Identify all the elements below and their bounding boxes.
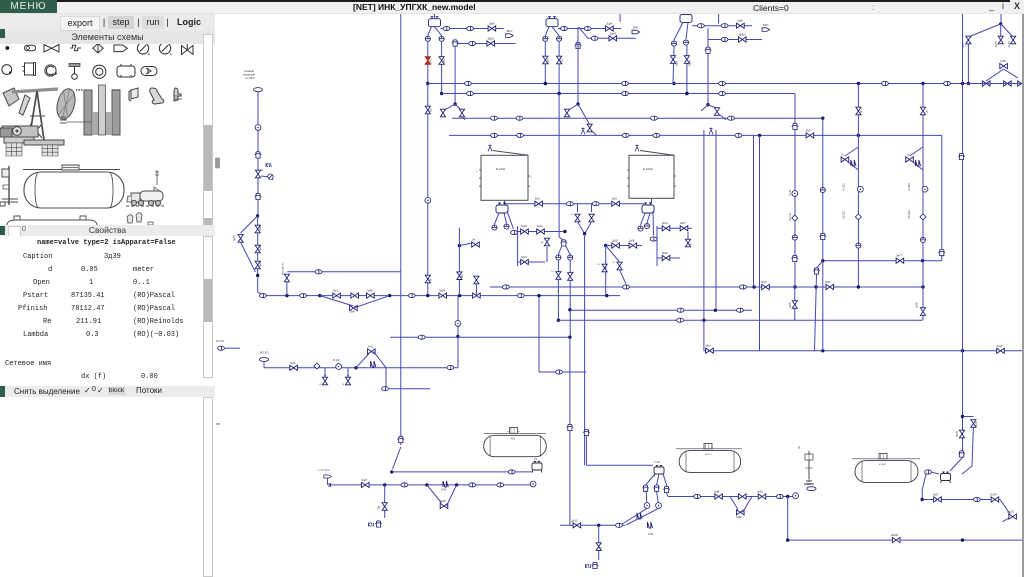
- wire: [1002, 518, 1009, 522]
- valve SuM: [350, 306, 358, 311]
- valve: [474, 276, 479, 284]
- wire C1 row1: [441, 28, 504, 30]
- wire: [538, 296, 540, 372]
- wire merge: [578, 222, 585, 234]
- svg-text:БРС: БРС: [560, 58, 564, 64]
- valve Zi104: [991, 497, 999, 502]
- valve: [685, 239, 690, 247]
- valve: [587, 124, 592, 132]
- valve: [255, 245, 260, 253]
- svg-text:Зв75: Зв75: [994, 41, 998, 48]
- check valve: [792, 215, 798, 221]
- fitting: [502, 285, 509, 289]
- wire: [566, 247, 570, 255]
- group right drum cluster: [921, 470, 1017, 522]
- wire stub: [286, 282, 288, 296]
- node: [786, 495, 789, 498]
- fitting: [944, 81, 951, 85]
- group line y540: [786, 534, 1024, 543]
- wire: [427, 42, 429, 84]
- wire drop: [428, 27, 432, 36]
- wire bypass: [845, 147, 859, 156]
- wire: [673, 47, 674, 84]
- node: [426, 294, 429, 297]
- wire branch: [455, 104, 462, 111]
- palette icons svg: [0, 44, 215, 225]
- wire: [569, 260, 571, 273]
- wire stub: [687, 232, 689, 239]
- pole tick: [805, 454, 813, 482]
- tank2 top line: [676, 448, 742, 450]
- strainer: [371, 361, 376, 367]
- fitting: [882, 81, 889, 85]
- wire drop: [384, 485, 386, 518]
- wire branch: [817, 261, 823, 268]
- drum: [496, 203, 508, 213]
- svg-text:Зд33: Зд33: [259, 245, 262, 251]
- group subtree x559: [551, 94, 575, 338]
- wire: [458, 228, 460, 246]
- valve: [792, 301, 797, 309]
- small 3d icons: [129, 88, 182, 104]
- indicator: [255, 125, 261, 131]
- wire: [557, 260, 559, 272]
- vessel drum C1: [429, 17, 441, 27]
- valve: [425, 106, 430, 114]
- valve Zd99: [758, 494, 766, 499]
- node: [821, 349, 824, 352]
- group drum under E-1043: [638, 203, 657, 241]
- wire branch: [963, 416, 974, 418]
- valve Zv77: [896, 258, 904, 263]
- strainer: [851, 160, 856, 166]
- wire: [558, 42, 560, 94]
- wire bypass: [910, 147, 924, 156]
- svg-text:Зв76: Зв76: [975, 421, 978, 427]
- wire trunk right: [962, 14, 964, 458]
- indicator: [644, 223, 649, 228]
- wire: [967, 44, 969, 84]
- wire C1 row2: [455, 43, 515, 45]
- wire bypass: [353, 296, 389, 309]
- group line y372: [537, 294, 586, 374]
- wire bus mid: [490, 286, 923, 288]
- svg-text:ЗвУЗ: ЗвУЗ: [761, 281, 767, 284]
- valve ZvM: [706, 348, 714, 353]
- wire header: [656, 226, 658, 266]
- svg-text:Зд09: Зд09: [521, 225, 527, 228]
- valve: [602, 264, 607, 272]
- wire: [558, 247, 561, 255]
- fitting: [728, 116, 735, 120]
- arrow BRS: [762, 28, 770, 32]
- start tick: [329, 483, 331, 487]
- pump Н-1022: [922, 186, 928, 192]
- svg-text:НС1022: НС1022: [908, 210, 911, 219]
- separator can: [255, 152, 262, 158]
- fitting: [776, 494, 783, 498]
- valve F: [425, 275, 430, 283]
- fitting: [491, 116, 498, 120]
- fitting: [591, 36, 598, 40]
- window title bar: [0, 0, 1024, 14]
- wire drop: [674, 22, 683, 40]
- node: [383, 483, 386, 486]
- fitting: [737, 308, 744, 312]
- node: [388, 294, 391, 297]
- valve: [473, 293, 481, 298]
- svg-text:Зс: Зс: [841, 154, 844, 157]
- node: [597, 524, 600, 527]
- svg-text:Ф2: Ф2: [461, 274, 464, 278]
- wire line D: [449, 134, 942, 136]
- node: [857, 285, 860, 288]
- valve ZdM: [290, 365, 298, 370]
- svg-text:Зд31: Зд31: [233, 235, 236, 241]
- wire: [707, 28, 709, 105]
- wire drop: [507, 211, 514, 229]
- node: [786, 538, 789, 541]
- wire C3 row1: [692, 25, 752, 27]
- node: [563, 230, 566, 233]
- valve: [906, 157, 914, 162]
- tank3 end seams: [862, 461, 911, 482]
- wire bypass down: [962, 427, 973, 474]
- group tank3: [852, 453, 920, 482]
- separator can: [819, 233, 826, 239]
- wire: [388, 388, 430, 390]
- vessel E-1043 body: [629, 155, 674, 198]
- pump Н-1021: [858, 186, 864, 192]
- strainer: [637, 513, 642, 519]
- indicator: [644, 503, 650, 509]
- drum separator: [654, 466, 664, 477]
- valve ZvU1: [826, 284, 834, 289]
- svg-text:а: а: [476, 171, 478, 173]
- indicator: [568, 255, 573, 260]
- drum U2: [532, 462, 542, 473]
- node: [544, 82, 547, 85]
- wire corner: [393, 447, 401, 469]
- fitting: [719, 91, 726, 95]
- wire stub: [619, 13, 621, 22]
- wire header: [517, 226, 519, 266]
- svg-text:Газовый: Газовый: [244, 69, 255, 73]
- svg-text:Е: Е: [342, 383, 345, 385]
- group pump line H-102: [259, 296, 460, 391]
- wire bypass: [910, 160, 924, 171]
- wire drop: [598, 525, 600, 560]
- drum: [941, 472, 951, 483]
- tank2 hatch: [704, 443, 712, 448]
- separator can: [583, 429, 590, 435]
- svg-text:ЗиМ: ЗиМ: [367, 289, 373, 293]
- bottom select bar: [0, 386, 215, 397]
- svg-text:Н-1021: Н-1021: [842, 182, 845, 191]
- svg-text:Е: Е: [572, 271, 575, 273]
- node: [583, 232, 586, 235]
- wire drop: [663, 474, 668, 488]
- node: [857, 134, 860, 137]
- wire pump chain: [922, 84, 924, 261]
- separator can: [575, 42, 582, 48]
- pump: [530, 481, 536, 487]
- valve Ve1: [535, 201, 543, 206]
- wire: [454, 47, 456, 105]
- svg-text:Зв07: Зв07: [933, 494, 939, 497]
- wire: [441, 42, 443, 94]
- group cluster C2: [543, 13, 640, 135]
- node: [921, 498, 924, 501]
- svg-text:У2: У2: [534, 458, 538, 461]
- svg-text:Е: Е: [319, 383, 322, 385]
- valve: [670, 56, 675, 64]
- wire: [605, 246, 607, 296]
- node: [557, 319, 560, 322]
- valve Zd06: [629, 243, 637, 248]
- valve: [544, 238, 549, 246]
- svg-text:Зв76: Зв76: [1007, 41, 1011, 48]
- valve: [575, 214, 580, 222]
- valve: [322, 377, 327, 385]
- wire: [657, 227, 692, 229]
- indicator: [856, 243, 861, 248]
- label oval: [253, 88, 262, 92]
- tank1 end seams: [490, 436, 540, 457]
- valve: [1011, 36, 1016, 44]
- node: [285, 294, 288, 297]
- node: [714, 309, 717, 312]
- wire: [560, 524, 625, 526]
- fitting: [401, 483, 408, 487]
- svg-text:Ве1: Ве1: [535, 197, 540, 201]
- wire roof: [640, 151, 674, 156]
- valve Zi104: [892, 538, 900, 543]
- valve: [596, 543, 601, 551]
- wire: [823, 260, 942, 262]
- wire: [657, 257, 680, 259]
- svg-text:Е: Е: [600, 547, 603, 549]
- can: [642, 485, 649, 491]
- indicator: [820, 187, 825, 192]
- separator can: [567, 424, 574, 430]
- valve Zi04: [439, 293, 447, 298]
- flag pole picture: [0, 166, 18, 206]
- valve: [982, 81, 990, 86]
- vessel drum C2: [546, 17, 558, 27]
- group pump chain B lower: [916, 237, 926, 320]
- valve red alarm: [425, 57, 430, 65]
- node: [706, 103, 709, 106]
- valve Zd23: [521, 259, 529, 264]
- wire C2 row2: [579, 27, 636, 38]
- valve SuYu: [1000, 64, 1008, 69]
- separator can: [452, 40, 459, 46]
- valve: [920, 308, 925, 316]
- check valve: [920, 214, 926, 220]
- group top buses: [428, 81, 1020, 320]
- node: [857, 82, 860, 85]
- svg-text:Ф: Ф: [541, 241, 544, 243]
- separator can: [792, 123, 799, 129]
- svg-text:БРС: БРС: [546, 58, 550, 64]
- wire stub: [1000, 14, 1002, 24]
- flare stack: [488, 145, 492, 152]
- wire feed: [257, 92, 259, 216]
- valve: [255, 261, 260, 269]
- wire long: [704, 350, 1024, 352]
- wire riser: [759, 135, 761, 350]
- svg-text:ЗвУ5: ЗвУ5: [789, 302, 792, 308]
- dot above valve: [324, 375, 326, 377]
- gauge: [268, 174, 274, 180]
- wire stub: [591, 204, 593, 212]
- valve: [737, 510, 745, 515]
- valve: [255, 170, 260, 178]
- valve: [557, 56, 562, 64]
- group flag pole: [799, 445, 814, 484]
- tank2 body: [679, 451, 741, 473]
- svg-text:Ф: Ф: [429, 279, 432, 281]
- fitting: [491, 133, 498, 137]
- wire: [257, 216, 259, 292]
- indicator: [492, 225, 497, 230]
- valve bypass: [971, 420, 976, 428]
- svg-text:Е: Е: [571, 213, 574, 215]
- fitting: [516, 116, 523, 120]
- svg-text:ЗдМ: ЗдМ: [606, 22, 612, 26]
- wire: [518, 261, 545, 263]
- valve shtutser: [284, 274, 289, 282]
- can: [663, 486, 670, 492]
- node: [605, 294, 608, 297]
- dot above valve: [347, 375, 349, 377]
- wire drop: [435, 27, 442, 36]
- svg-text:Зд88: Зд88: [714, 491, 720, 494]
- svg-text:Н-102: Н-102: [333, 359, 340, 362]
- wire long bottom: [788, 539, 1024, 541]
- wire riser: [753, 135, 755, 287]
- left panel: [0, 14, 215, 577]
- wire bypass: [447, 485, 457, 506]
- node: [961, 415, 964, 418]
- svg-text:ЗФК: ЗФК: [687, 60, 691, 66]
- valve: [459, 109, 464, 117]
- label oval: [807, 487, 816, 491]
- group cluster x459: [457, 228, 480, 296]
- svg-text:КС 101: КС 101: [216, 339, 225, 343]
- wire drop: [647, 213, 650, 223]
- svg-text:Е-1021: Е-1021: [496, 167, 506, 171]
- separator can: [375, 521, 382, 527]
- wire stub: [504, 200, 506, 203]
- group line y496: [668, 483, 816, 540]
- fitting: [677, 308, 684, 312]
- node: [544, 82, 547, 85]
- wire riser: [559, 94, 564, 241]
- wire bus A: [428, 83, 1020, 85]
- wire branch: [459, 243, 472, 246]
- node: [814, 285, 817, 288]
- wire drop: [552, 27, 559, 36]
- svg-text:НС-101: НС-101: [789, 212, 792, 221]
- fitting: [508, 470, 515, 474]
- strainer: [647, 522, 652, 528]
- svg-text:ФВ: ФВ: [429, 108, 432, 112]
- wire drop: [787, 497, 789, 541]
- wire riser: [822, 118, 824, 351]
- fitting: [315, 270, 322, 274]
- valve: [367, 293, 375, 298]
- separator can: [397, 436, 404, 442]
- valve Zd101: [1009, 514, 1017, 519]
- fitting: [556, 370, 563, 374]
- pole: [804, 451, 814, 484]
- wire: [931, 472, 939, 474]
- mark K: [369, 523, 374, 527]
- valve: [568, 273, 573, 281]
- svg-text:Ве2: Ве2: [612, 197, 617, 201]
- arrow BRS: [632, 30, 640, 34]
- group main line 296: [260, 262, 621, 314]
- group mid bottom risers: [583, 429, 670, 536]
- wire stub: [651, 198, 653, 203]
- wire: [668, 496, 795, 498]
- valve Зд: [488, 26, 496, 31]
- node: [821, 117, 824, 120]
- group line y525: [560, 519, 625, 568]
- svg-text:СВ: СВ: [799, 445, 801, 449]
- node: [752, 285, 755, 288]
- svg-text:Зв78: Зв78: [916, 302, 919, 308]
- fitting: [467, 91, 474, 95]
- wire: [392, 471, 533, 473]
- label oval MO101: [259, 358, 268, 362]
- wire branch: [1001, 24, 1013, 37]
- fitting: [561, 26, 568, 30]
- valve: [333, 293, 341, 298]
- fitting: [973, 497, 980, 501]
- wire branch: [443, 104, 455, 111]
- wire branch: [968, 24, 1000, 37]
- node: [568, 308, 571, 311]
- wire: [505, 203, 645, 205]
- fitting: [623, 285, 630, 289]
- svg-text:Ве7: Ве7: [806, 128, 811, 132]
- group line y337: [390, 335, 573, 525]
- svg-text:Е: Е: [593, 213, 596, 215]
- group valve block left: [518, 225, 567, 266]
- valve: [457, 272, 462, 280]
- wire branch: [620, 270, 626, 284]
- wire drop: [652, 211, 655, 236]
- wire stub: [327, 478, 329, 485]
- svg-text:Зф: Зф: [378, 506, 381, 509]
- properties rows: [0, 236, 203, 386]
- wire riser: [941, 135, 943, 260]
- properties scrollbar: [203, 236, 213, 378]
- node: [576, 102, 579, 105]
- wire bypass: [730, 497, 738, 510]
- fitting: [467, 26, 474, 30]
- svg-text:Н-101: Н-101: [789, 189, 792, 196]
- fitting: [465, 81, 472, 85]
- valve Ve7: [806, 133, 814, 138]
- tank3 hatch: [879, 453, 887, 458]
- fitting: [721, 24, 728, 28]
- node: [961, 538, 964, 541]
- node: [758, 134, 761, 137]
